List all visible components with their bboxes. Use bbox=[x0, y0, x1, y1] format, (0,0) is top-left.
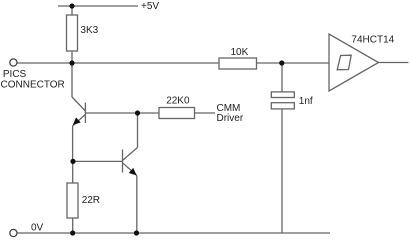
svg-text:22K0: 22K0 bbox=[166, 96, 190, 107]
svg-text:CONNECTOR: CONNECTOR bbox=[1, 80, 65, 91]
svg-text:Driver: Driver bbox=[217, 113, 244, 124]
svg-text:1nf: 1nf bbox=[299, 96, 313, 107]
svg-text:22R: 22R bbox=[82, 195, 100, 206]
svg-text:+5V: +5V bbox=[141, 1, 159, 12]
svg-text:PICS: PICS bbox=[3, 69, 27, 80]
svg-text:10K: 10K bbox=[231, 47, 249, 58]
svg-text:3K3: 3K3 bbox=[80, 25, 98, 36]
svg-text:0V: 0V bbox=[31, 223, 44, 234]
svg-text:74HCT14: 74HCT14 bbox=[351, 35, 394, 46]
